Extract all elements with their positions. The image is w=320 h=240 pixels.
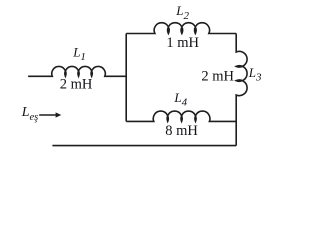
svg-text:1 mH: 1 mH [166,35,199,51]
svg-text:L2: L2 [175,3,189,22]
svg-text:L3: L3 [248,65,262,84]
svg-text:L1: L1 [72,44,86,63]
svg-text:8 mH: 8 mH [165,123,198,139]
svg-text:2 mH: 2 mH [60,77,93,93]
svg-text:Leş: Leş [21,105,39,123]
svg-text:2 mH: 2 mH [201,69,234,85]
svg-text:L4: L4 [173,90,187,109]
